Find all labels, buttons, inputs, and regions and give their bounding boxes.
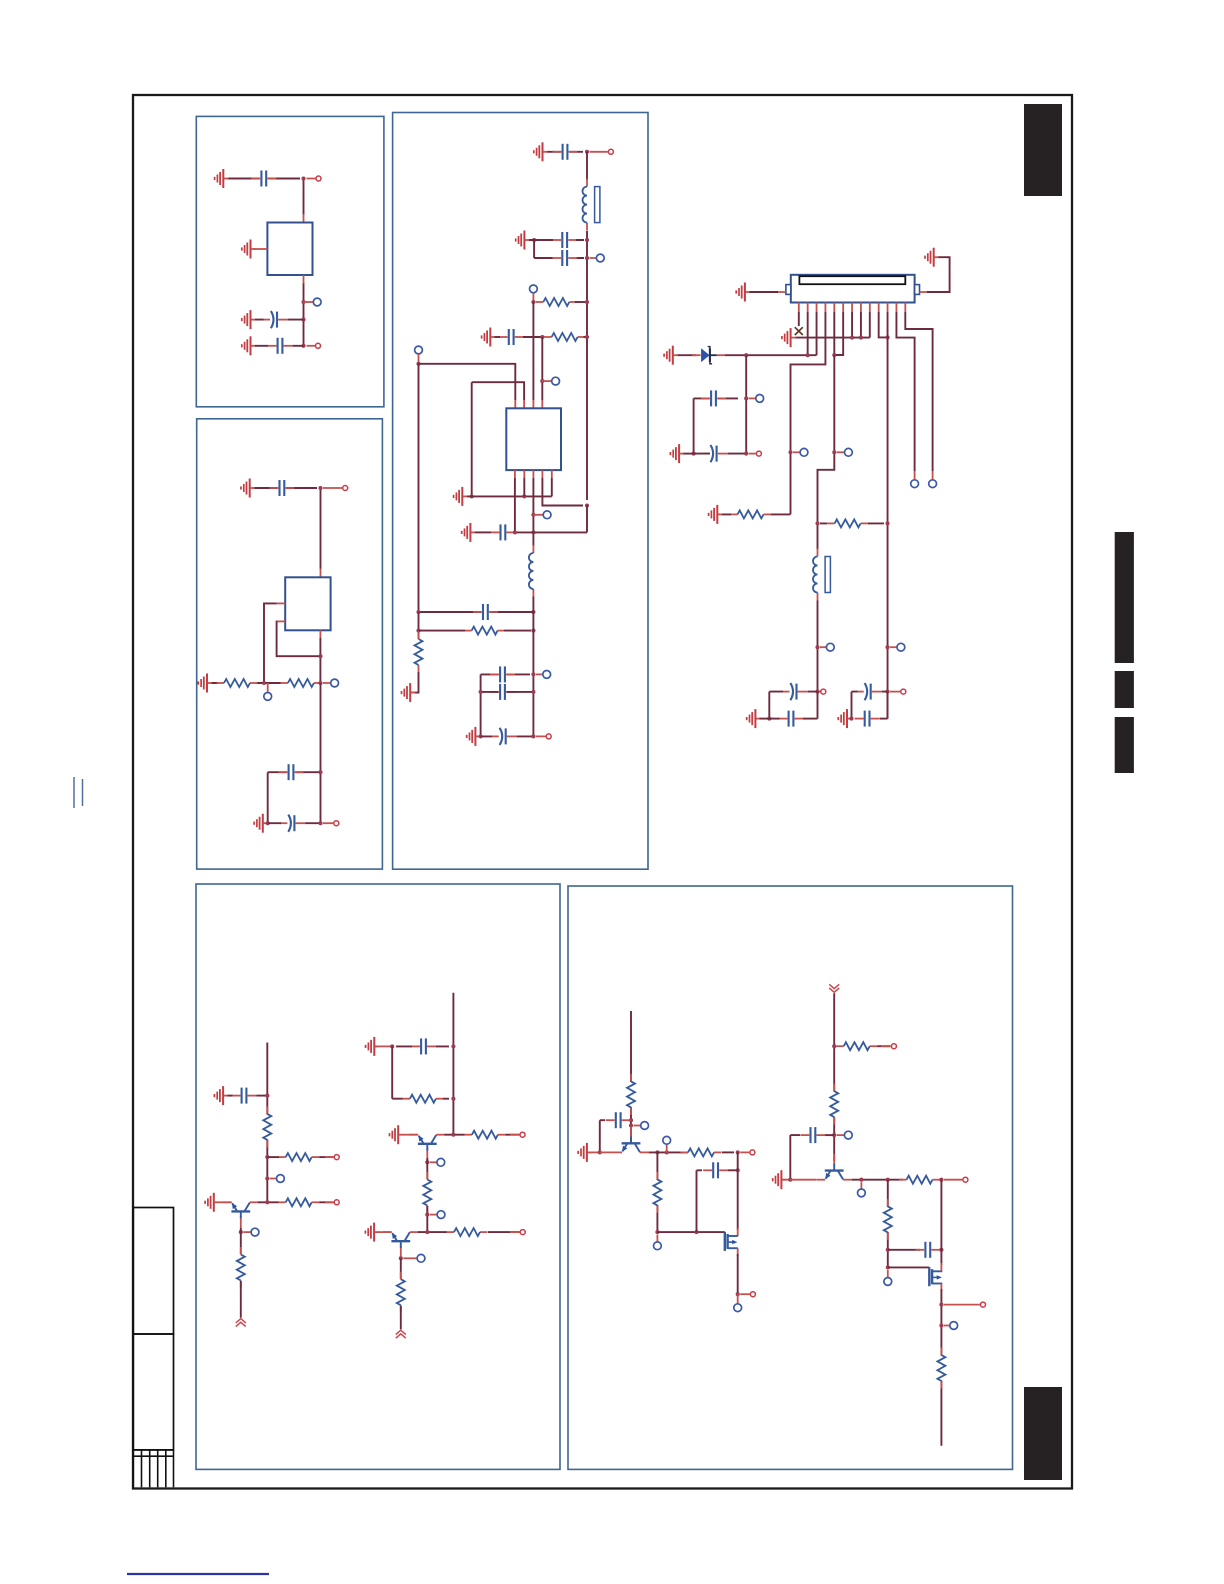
ground <box>782 328 796 347</box>
wire net3f2 <box>584 336 588 338</box>
wire net3c <box>586 231 588 500</box>
junction <box>399 1256 403 1260</box>
wire b4r spine <box>452 993 454 1135</box>
junction <box>318 654 322 658</box>
resistor R14 <box>464 1131 505 1139</box>
transistor Q4 <box>613 1126 649 1152</box>
port <box>654 1242 662 1250</box>
capacitor C21 <box>855 711 880 727</box>
junction <box>629 1118 633 1122</box>
wire net pc20 <box>852 692 888 719</box>
capacitor C3 <box>268 338 293 354</box>
junction <box>262 681 266 685</box>
connector J1 left tab <box>786 285 791 295</box>
wire U3 pin1 <box>514 478 516 532</box>
IC U3 <box>506 408 561 470</box>
junction <box>886 1248 890 1252</box>
junction <box>239 1230 243 1234</box>
junction <box>585 300 589 304</box>
wire net3l <box>515 506 587 533</box>
resistor R16 <box>447 1228 488 1236</box>
terminal <box>963 1177 968 1182</box>
junction <box>886 1265 890 1269</box>
wire net3o <box>419 630 532 632</box>
wire b4r coll2 <box>418 1231 447 1233</box>
resistor R19 <box>681 1148 722 1156</box>
junction <box>939 1178 943 1182</box>
wire conn right gnd <box>927 257 950 292</box>
resistor R18 <box>627 1074 635 1115</box>
wire b4l r10a <box>267 1156 279 1158</box>
junction <box>788 1178 792 1182</box>
junction <box>806 353 810 357</box>
junction <box>585 238 589 242</box>
wire net3l2 <box>475 531 491 533</box>
wire pin13 route <box>905 312 932 471</box>
junction <box>540 379 544 383</box>
port <box>734 1304 742 1312</box>
junction <box>736 1150 740 1154</box>
capacitor C9 <box>552 250 577 266</box>
power arrow <box>829 984 839 992</box>
port <box>596 254 604 262</box>
junction <box>849 717 853 721</box>
capacitor C12 <box>473 604 498 620</box>
junction <box>301 344 305 348</box>
wire diode row <box>725 312 817 355</box>
wire b4r v1 <box>426 1158 428 1179</box>
wire net3h <box>419 364 516 400</box>
terminal <box>316 176 321 181</box>
ground <box>709 505 723 524</box>
wire net pc18 <box>769 692 817 719</box>
junction <box>939 1323 943 1327</box>
wire b4l base dn <box>240 1228 242 1254</box>
connector J1 right tab <box>915 285 920 295</box>
wire b4l c22 <box>257 1095 267 1097</box>
wire net c21 <box>880 718 888 720</box>
wire conn left gnd <box>750 291 779 293</box>
wire conn gnd row <box>796 312 870 338</box>
wire net3k <box>418 364 420 612</box>
port <box>331 679 339 687</box>
resistor R17 <box>397 1272 405 1313</box>
junction <box>744 452 748 456</box>
black marker right 2 <box>1115 671 1134 708</box>
ground <box>467 727 481 746</box>
wire net3m <box>419 611 534 613</box>
terminal <box>520 1132 525 1137</box>
resistor R2 <box>280 679 321 687</box>
region box 1 <box>196 116 384 406</box>
ground <box>402 683 416 702</box>
junction <box>531 690 535 694</box>
footer rule <box>127 1573 269 1575</box>
wire net L3dn <box>817 601 819 692</box>
resistor R6 <box>415 632 423 673</box>
capacitor C24 <box>606 1112 631 1128</box>
ground <box>670 444 684 463</box>
ground <box>198 674 212 693</box>
MOSFET M1 <box>725 1232 738 1251</box>
polarized capacitor C6 <box>280 815 306 832</box>
connector J1 body <box>791 275 915 303</box>
wire b4r r13 <box>443 1098 449 1100</box>
junction <box>850 336 854 340</box>
capacitor C23 <box>411 1038 436 1054</box>
wire gnd row U3 <box>467 478 552 496</box>
wire b5l v3 <box>737 1254 739 1294</box>
wire net3g <box>541 337 543 400</box>
junction <box>318 770 322 774</box>
junction <box>479 690 483 694</box>
terminal <box>901 689 906 694</box>
junction <box>767 717 771 721</box>
diode D1 <box>692 347 725 364</box>
ground <box>365 1223 379 1242</box>
capacitor C25 <box>703 1162 728 1178</box>
wire b5l gate row <box>657 1231 724 1233</box>
wire b5l bracket <box>600 1120 605 1152</box>
junction <box>265 1094 269 1098</box>
terminal <box>750 1292 755 1297</box>
left margin tick 2 <box>82 779 84 806</box>
resistor R10 <box>278 1153 319 1161</box>
junction <box>531 530 535 534</box>
wire net3q <box>410 672 418 693</box>
terminal <box>756 451 761 456</box>
wire b4l tail <box>240 1281 242 1318</box>
ground <box>454 487 468 506</box>
wire net c19b <box>769 718 779 720</box>
junction <box>736 1292 740 1296</box>
wire b5l coll <box>649 1151 688 1153</box>
junction <box>885 645 889 649</box>
port <box>415 346 423 354</box>
resistor R25 <box>937 1348 945 1389</box>
capacitor C7 <box>553 144 578 160</box>
black marker bottom-right <box>1024 1387 1062 1480</box>
wire net2d <box>320 683 322 823</box>
wire b5l spine <box>630 1011 632 1143</box>
junction <box>301 300 305 304</box>
port <box>897 643 905 651</box>
junction <box>655 1230 659 1234</box>
junction <box>513 530 517 534</box>
port <box>437 1211 445 1219</box>
region box 3 <box>393 113 648 870</box>
junction <box>886 1178 890 1182</box>
wire net1c <box>303 283 305 346</box>
terminal <box>334 821 339 826</box>
wire b4l coll <box>258 1201 279 1203</box>
ground <box>747 709 761 728</box>
ground <box>242 240 256 259</box>
wire net2a <box>254 487 317 489</box>
resistor R23 <box>899 1176 940 1184</box>
inductor L2 <box>529 545 534 597</box>
wire b5r v2 <box>940 1180 942 1265</box>
junction <box>815 690 819 694</box>
ground <box>482 328 496 347</box>
wire U2 pin a <box>264 603 277 683</box>
port <box>530 285 538 293</box>
terminal <box>891 1044 896 1049</box>
wire b4r v2 <box>426 1206 428 1232</box>
polarized capacitor C15 <box>492 728 518 745</box>
wire pin8 <box>860 312 862 338</box>
port <box>950 1322 958 1330</box>
wire b4r v3 <box>400 1258 402 1279</box>
junction <box>832 353 836 357</box>
wire pin4 route <box>791 312 826 514</box>
wire U2 pin c <box>319 638 321 683</box>
port <box>826 643 834 651</box>
junction <box>265 1200 269 1204</box>
terminal <box>334 1155 339 1160</box>
terminal <box>520 1230 525 1235</box>
wire pin1 <box>798 312 800 326</box>
wire net2e <box>268 772 321 823</box>
junction <box>318 486 322 490</box>
resistor R13 <box>402 1095 443 1103</box>
port <box>543 511 551 519</box>
capacitor C8 <box>552 232 577 248</box>
power arrow <box>236 1319 246 1327</box>
left margin tick 1 <box>73 777 75 808</box>
ground <box>214 1086 228 1105</box>
capacitor C4 <box>269 480 294 496</box>
junction <box>692 452 696 456</box>
title block grid <box>133 1450 173 1487</box>
wire pin11 net <box>887 312 889 719</box>
wire b4r c23 <box>396 1045 449 1047</box>
wire b5r spine <box>833 993 835 1161</box>
port <box>884 1278 892 1286</box>
wire b5l v1 <box>656 1152 658 1232</box>
terminal <box>546 734 551 739</box>
wire net c19 <box>803 718 818 720</box>
wire pin10 <box>879 312 888 337</box>
capacitor C10 <box>499 329 524 345</box>
junction <box>531 300 535 304</box>
junction <box>301 318 305 322</box>
wire b4l r11 <box>319 1201 333 1203</box>
terminal <box>608 149 613 154</box>
wire b5l c25b <box>728 1169 738 1171</box>
wire net pc20b <box>852 691 888 693</box>
junction <box>425 1213 429 1217</box>
resistor R8 <box>827 519 868 527</box>
resistor R7 <box>730 510 771 518</box>
polarized capacitor C2 <box>263 311 289 328</box>
wire net pc18b <box>769 691 817 693</box>
terminal <box>750 1150 755 1155</box>
port <box>929 480 937 488</box>
wire b4l r10 <box>319 1156 333 1158</box>
ground <box>838 709 852 728</box>
junction <box>425 1230 429 1234</box>
junction <box>301 176 305 180</box>
ground <box>390 1125 404 1144</box>
wire pin2 <box>807 312 809 355</box>
junction <box>815 521 819 525</box>
ground <box>205 1193 219 1212</box>
title block cell A <box>133 1208 173 1335</box>
resistor R15 <box>423 1172 431 1213</box>
wire b4r tail <box>400 1306 402 1329</box>
port <box>858 1189 866 1197</box>
terminal <box>821 689 826 694</box>
junction <box>585 256 589 260</box>
port <box>552 377 560 385</box>
junction <box>318 681 322 685</box>
junction <box>832 450 836 454</box>
port <box>663 1136 671 1144</box>
junction <box>885 690 889 694</box>
wire net d3 <box>694 453 747 455</box>
wire b5l bracket2 <box>697 1170 703 1232</box>
junction <box>451 1133 455 1137</box>
wire net3e <box>532 302 534 400</box>
resistor R11 <box>278 1198 319 1206</box>
wire b4r bracket <box>392 1046 403 1098</box>
wire gnd-c10 <box>495 336 501 338</box>
wire b4r r14 <box>505 1134 519 1136</box>
wire net2c <box>211 682 281 684</box>
transistor Q5 <box>816 1154 852 1180</box>
wire net r8 <box>820 522 884 524</box>
wire net3j <box>471 382 473 496</box>
junction <box>531 629 535 633</box>
wire net d1 <box>745 355 747 453</box>
junction <box>832 1133 836 1137</box>
junction <box>939 1248 943 1252</box>
resistor R3 <box>536 298 577 306</box>
wire net1b <box>303 179 305 216</box>
port <box>264 693 272 701</box>
wire b5l v2 <box>737 1152 739 1230</box>
IC U1 <box>267 223 312 276</box>
wire gnd-c22 <box>228 1095 233 1097</box>
junction <box>522 494 526 498</box>
junction <box>585 503 589 507</box>
capacitor C5 <box>279 764 304 780</box>
region box 5 <box>568 886 1013 1469</box>
capacitor C14 <box>490 684 515 700</box>
black marker top-right <box>1024 104 1062 196</box>
terminal <box>981 1302 986 1307</box>
ground <box>254 814 268 833</box>
junction <box>585 150 589 154</box>
resistor R9 <box>263 1106 271 1147</box>
junction <box>531 672 535 676</box>
capacitor C22 <box>232 1088 257 1104</box>
region box 2 <box>197 419 383 869</box>
polarized capacitor C17 <box>702 445 728 462</box>
capacitor C11 <box>490 524 515 540</box>
junction <box>416 362 420 366</box>
terminal <box>343 486 348 491</box>
polarized capacitor C18 <box>782 683 808 700</box>
ground <box>215 169 229 188</box>
page frame <box>133 95 1072 1489</box>
MOSFET M2 <box>929 1267 942 1286</box>
wire b5r c26b <box>825 1134 834 1136</box>
ground <box>242 310 256 329</box>
wire U3 pin3 <box>532 478 534 546</box>
wire b5r r21 <box>877 1045 890 1047</box>
junction <box>815 645 819 649</box>
ground <box>241 479 255 498</box>
resistor R4 <box>544 333 585 341</box>
junction <box>540 335 544 339</box>
ground <box>925 248 939 267</box>
port <box>911 480 919 488</box>
terminal <box>334 1200 339 1205</box>
capacitor C26 <box>800 1127 825 1143</box>
wire net1e <box>255 345 304 347</box>
wire b4r r16 <box>488 1231 519 1233</box>
resistor R1 <box>217 679 258 687</box>
wire net3p <box>532 597 534 737</box>
inductor L1 <box>583 179 600 231</box>
ground <box>773 1170 787 1189</box>
junction <box>744 396 748 400</box>
wire pin12 route <box>896 312 914 471</box>
power arrow <box>396 1330 406 1338</box>
wire net3n <box>418 612 420 639</box>
port <box>800 448 808 456</box>
wire U3 pin2 <box>523 478 525 496</box>
wire net c56 <box>818 355 835 549</box>
wire net1a <box>228 178 300 180</box>
ground <box>242 336 256 355</box>
port <box>845 448 853 456</box>
wire pin5-6 <box>834 312 843 355</box>
resistor R12 <box>237 1247 245 1288</box>
junction <box>744 353 748 357</box>
junction <box>886 335 890 339</box>
wire b5r v3 <box>940 1289 942 1446</box>
wire net2f <box>268 822 321 824</box>
port <box>313 298 321 306</box>
junction <box>425 1160 429 1164</box>
resistor R21 <box>836 1042 877 1050</box>
port <box>437 1158 445 1166</box>
wire net3e2 <box>575 301 587 303</box>
ground <box>534 142 548 161</box>
wire b5r coll <box>852 1179 903 1181</box>
junction <box>531 513 535 517</box>
junction <box>736 1168 740 1172</box>
connector J1 key slot <box>799 276 905 284</box>
resistor R24 <box>884 1199 892 1240</box>
wire b5r caprow <box>888 1249 920 1251</box>
junction <box>629 1123 633 1127</box>
wire net3i <box>472 382 524 400</box>
junction <box>655 1150 659 1154</box>
ground <box>462 523 476 542</box>
wire b5r v1 <box>887 1180 889 1268</box>
junction <box>265 1176 269 1180</box>
junction <box>470 494 474 498</box>
transistor Q3 <box>383 1232 419 1258</box>
junction <box>416 629 420 633</box>
inductor L3 <box>813 549 830 601</box>
wire net3s <box>481 691 534 693</box>
wire net1d <box>255 319 304 321</box>
